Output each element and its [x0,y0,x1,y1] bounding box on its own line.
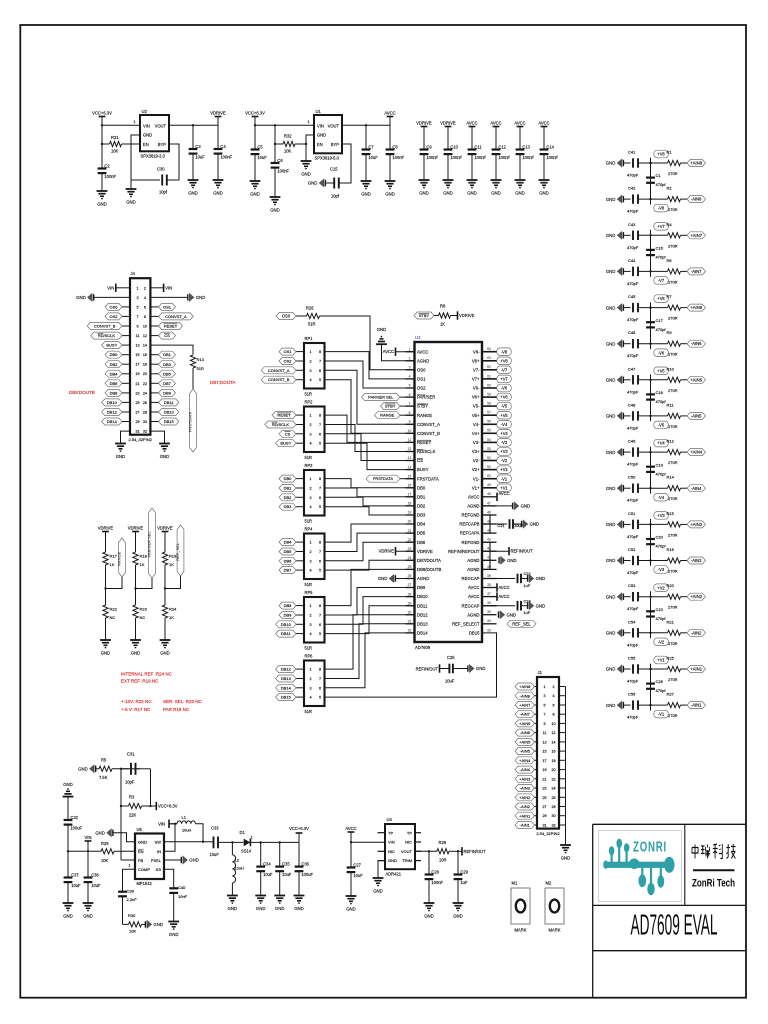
wire [623,234,630,236]
svg-text:VCC+6.3V: VCC+6.3V [245,110,265,115]
svg-text:R12: R12 [667,439,675,444]
pin 51 V2+ [482,469,497,471]
svg-text:R23: R23 [140,607,148,612]
svg-text:C11: C11 [474,144,482,149]
svg-text:32: 32 [408,629,412,633]
pin 6 PAR/SER [406,396,415,398]
svg-text:C3: C3 [195,144,201,149]
power flag AVCC (pin1) [396,351,415,353]
svg-text:SPX3819-3.3: SPX3819-3.3 [141,154,166,159]
wire [623,307,630,309]
pin 18 DB2 [406,505,415,507]
net flag DB11 (J4) [150,401,158,403]
net flag BUSY (RP2 input) [296,442,304,444]
svg-text:1: 1 [309,604,311,608]
svg-text:51R: 51R [308,322,316,327]
wire [623,523,630,525]
svg-text:C18: C18 [656,390,664,395]
svg-text:8: 8 [319,668,321,672]
ground [515,179,526,181]
svg-text:1: 1 [134,120,136,124]
capacitor C1 470pF (differential) [650,163,652,199]
svg-text:GND: GND [83,914,93,919]
svg-text:8: 8 [552,713,554,717]
resistor R20 270R [668,594,681,599]
wire [681,307,688,309]
capacitor C9 100nF [420,148,429,150]
svg-text:-AIN1: -AIN1 [520,823,531,828]
node flag -V5 [650,416,652,421]
svg-text:-V7: -V7 [501,367,508,372]
svg-text:V5+: V5+ [472,413,480,418]
wire [559,704,566,706]
svg-text:VDRIVE: VDRIVE [440,120,456,125]
svg-text:DB4: DB4 [417,522,426,527]
svg-text:GND: GND [317,133,326,138]
svg-text:5: 5 [319,569,321,573]
node flag +V2 [650,591,652,596]
power flag REFIN/OUT (pin42) [490,550,509,552]
svg-text:RANGE: RANGE [117,551,122,566]
wire [681,379,688,381]
node flag +V1 [497,484,512,492]
net flag DB1 (RP3 input) [296,487,304,489]
pin 24 DB7/DOUTA [406,559,415,561]
svg-text:GND: GND [346,907,356,912]
svg-text:50: 50 [487,474,491,478]
svg-text:25: 25 [542,796,546,800]
pin 34 REF_SELECT [482,623,497,625]
svg-text:REF_SEL: REF_SEL [175,542,180,561]
svg-text:15: 15 [408,474,412,478]
net flag OS1 (RP1 input) [296,351,304,353]
node flag +V6 [650,302,652,307]
pin 35 AGND [482,614,497,616]
resistor R24 1K [164,589,166,606]
net flag RANGE [375,412,401,419]
ground [419,179,430,181]
capacitor C39 2.2nF [118,891,127,893]
svg-text:+AIN1: +AIN1 [690,667,702,672]
svg-text:+AIN4: +AIN4 [690,450,702,455]
pin 48 AVCC [482,496,497,498]
capacitor C10 100nF [444,148,453,150]
svg-text:V3-: V3- [473,440,480,445]
svg-text:VDRIVE: VDRIVE [417,549,433,554]
svg-text:VIN: VIN [388,840,395,845]
resistor R4 270R [668,233,681,238]
svg-text:L2: L2 [235,858,240,863]
svg-text:C49: C49 [628,439,636,444]
wire [623,704,630,706]
svg-text:C35: C35 [282,861,290,866]
ground flag [513,523,522,525]
capacitor C6 100nF [271,162,280,164]
svg-text:-AIN3: -AIN3 [691,558,702,563]
ground [213,179,224,181]
svg-text:R20: R20 [667,583,675,588]
svg-text:AD7609: AD7609 [415,645,431,650]
svg-text:DB9: DB9 [417,585,426,590]
svg-text:C36: C36 [301,861,309,866]
ground flag (FSEL) [164,859,182,861]
node flag +V7 [650,230,652,235]
resistor R10 270R [668,377,681,382]
svg-text:4: 4 [309,569,311,573]
svg-text:VDRIVE: VDRIVE [210,110,226,115]
svg-text:21: 21 [135,382,139,386]
power flag AVCC [493,126,500,128]
svg-text:DB10: DB10 [417,594,428,599]
inductor L1 10uH [177,821,195,824]
svg-text:14: 14 [143,344,147,348]
capacitor C11 100nF [468,148,477,150]
svg-text:GND: GND [378,576,388,581]
wire [623,560,630,562]
svg-text:C28: C28 [431,869,439,874]
svg-text:100nF: 100nF [474,155,486,160]
resistor R14 270R [668,486,681,491]
svg-text:25: 25 [135,401,139,405]
svg-text:R26: R26 [306,306,314,311]
node flag +V2 [497,466,512,474]
svg-text:AGND: AGND [467,558,479,563]
svg-text:PAR R18 NC: PAR R18 NC [163,707,190,712]
ground [227,895,238,897]
svg-text:6: 6 [319,559,321,563]
svg-text:GND: GND [419,191,429,196]
svg-text:+V4: +V4 [500,431,508,436]
svg-text:+AIN4: +AIN4 [519,758,531,763]
svg-text:26: 26 [408,574,412,578]
svg-text:22: 22 [408,538,412,542]
svg-text:C6: C6 [277,158,283,163]
svg-text:R3: R3 [129,795,135,800]
svg-text:51R: 51R [305,582,313,587]
svg-text:36: 36 [487,601,491,605]
capacitor C19 470pF (differential) [650,452,652,488]
svg-text:GND: GND [143,133,152,138]
svg-text:RP3: RP3 [305,463,314,468]
pin 38 AVCC [482,587,497,589]
svg-text:VCC+6.3V: VCC+6.3V [92,110,112,115]
net flag DB2 (J4) [122,363,130,365]
capacitor C22 1uF [482,578,515,580]
svg-text:51R: 51R [305,519,313,524]
svg-text:TP: TP [407,830,412,835]
wire RP2.5 to U3 pin 14 [325,443,415,469]
net flag DB7 (J4) [150,382,158,384]
svg-text:C10: C10 [450,144,458,149]
svg-text:270R: 270R [668,605,678,610]
wire RP5.8 to U3 pin 25 [325,569,415,605]
wire [681,198,688,200]
net flag +AIN4 (J1) [535,759,538,761]
svg-text:DB12: DB12 [107,410,118,415]
svg-text:470pf: 470pf [656,255,667,260]
regulator U1 SPX3819-5.0 [314,115,342,153]
capacitor C17 470pF (differential) [650,308,652,344]
svg-text:1K: 1K [169,615,174,620]
node flag -V1 [650,705,652,710]
svg-text:28: 28 [551,805,555,809]
wire RP5.7 to U3 pin 27 [325,588,415,616]
pin 49 V1+ [482,487,497,489]
svg-text:100nF: 100nF [522,155,534,160]
ground [188,179,199,181]
svg-text:C26: C26 [656,679,664,684]
resistor R3 22K [129,803,142,808]
svg-text:DB1: DB1 [284,486,293,491]
svg-text:+AIN6: +AIN6 [519,721,531,726]
svg-text:AVCC: AVCC [538,120,549,125]
net flag RD/SCLK (J4) [122,335,130,337]
svg-text:C17: C17 [656,318,664,323]
net flag -AIN3 (J1) [535,787,538,789]
wire [449,850,462,852]
svg-text:24: 24 [551,787,555,791]
ground flag (AIN4- filter) [617,484,622,493]
svg-text:+AIN3: +AIN3 [519,776,531,781]
node flag -V6 [497,384,512,392]
svg-text:GND: GND [78,767,88,772]
svg-text:C25: C25 [447,655,455,660]
svg-text:+V1: +V1 [657,658,665,663]
svg-text:21: 21 [542,777,546,781]
ground [294,895,305,897]
svg-text:14: 14 [551,740,555,744]
svg-text:VDRIVE: VDRIVE [128,525,144,530]
svg-text:OS2: OS2 [283,359,292,364]
svg-text:U1: U1 [316,109,322,114]
svg-text:GND: GND [606,522,616,527]
svg-text:GND: GND [507,558,517,563]
svg-text:C34: C34 [263,861,271,866]
svg-text:DB5: DB5 [417,531,426,536]
svg-text:CONVST_A: CONVST_A [417,422,440,427]
power flag REFIN/OUT [461,847,463,855]
wire RP6.5 to DB15 bus [324,696,326,698]
svg-text:AVCC: AVCC [468,594,480,599]
pin 50 V1- [482,478,497,480]
power flag AVCC (U1 output) [387,116,394,118]
svg-text:19: 19 [135,372,139,376]
svg-text:AVCC: AVCC [468,494,480,499]
net flag +AIN8 [687,160,706,167]
svg-text:470pF: 470pF [627,281,639,286]
svg-text:DB1: DB1 [417,494,426,499]
svg-text:GND: GND [138,840,147,845]
svg-text:5: 5 [319,696,321,700]
svg-text:C29: C29 [460,869,468,874]
svg-text:-AIN6: -AIN6 [520,730,531,735]
svg-text:GND: GND [63,914,73,919]
wire [164,618,166,640]
svg-text:43: 43 [487,538,491,542]
node flag -V2 [497,457,512,465]
svg-text:DB3: DB3 [163,362,172,367]
svg-text:2.2nF: 2.2nF [127,897,138,902]
ground [424,902,435,904]
wire [105,618,107,640]
power flag AVCC (pin38) [496,583,498,591]
svg-text:2: 2 [309,487,311,491]
net flag -AIN8 (J1) [535,695,538,697]
pin 12 RD/SCLK [406,451,415,453]
svg-text:100uF: 100uF [70,825,82,830]
svg-text:STBY: STBY [417,404,428,409]
svg-text:R2: R2 [667,186,673,191]
wire [274,125,276,163]
svg-text:7: 7 [543,713,545,717]
net flag OS2 (J4) [122,315,130,317]
svg-text:+V6: +V6 [500,395,508,400]
svg-text:GND: GND [196,295,206,300]
svg-text:10uF: 10uF [71,883,81,888]
svg-text:10pf: 10pf [331,194,340,199]
pin 29 DB11 [406,605,415,607]
svg-text:8: 8 [319,350,321,354]
svg-text:PAR/SER: PAR/SER [417,395,435,400]
svg-text:AGND: AGND [467,504,479,509]
wire RP1.8 to U3 pin 4 [325,352,415,379]
power flag AVCC (pin37) [496,592,498,600]
ground [130,639,141,641]
svg-text:1: 1 [309,668,311,672]
svg-text:53: 53 [487,447,491,451]
resistor R5 7.5K [96,768,99,770]
svg-text:20: 20 [551,768,555,772]
svg-text:C44: C44 [628,258,636,263]
svg-text:7: 7 [409,402,411,406]
node flag +V3 [497,448,512,456]
resistor R25 270R [668,666,681,671]
svg-text:470pF: 470pF [627,389,639,394]
svg-text:VIN: VIN [85,835,92,840]
wire [623,451,630,453]
net flag DB15 (J4) [150,421,158,423]
pin 63 V8+ [482,360,497,362]
svg-text:4: 4 [309,696,311,700]
ground flag (AIN8- filter) [617,195,622,204]
ground flag (pin35) [500,610,505,619]
svg-text:R25: R25 [667,656,675,661]
wire [105,565,107,589]
svg-text:GND: GND [294,906,304,911]
capacitor C45 470pF [632,303,634,312]
svg-text:22: 22 [143,382,147,386]
svg-text:7: 7 [319,360,321,364]
svg-text:VDRIVE: VDRIVE [379,549,395,554]
capacitor C36 100uF [298,842,300,866]
node flag -V4 [650,488,652,493]
wire [192,368,194,389]
svg-text:FSEL: FSEL [151,858,162,863]
ground [83,902,94,904]
ground flag [521,578,528,580]
capacitor C34 10uF [260,842,262,866]
svg-text:6: 6 [319,369,321,373]
svg-text:55: 55 [487,429,491,433]
power flag VCC+6.3V (U2 input) [99,116,106,118]
node flag +V8 [650,158,652,163]
svg-text:C30: C30 [157,167,165,172]
svg-text:+AIN8: +AIN8 [519,684,531,689]
wire [681,596,688,598]
svg-text:OS1: OS1 [283,349,292,354]
pin 44 REFCAPA [482,532,497,534]
svg-text:C46: C46 [628,330,636,335]
wire [135,618,137,640]
svg-text:4: 4 [309,632,311,636]
ground flag (AIN5- filter) [617,411,622,420]
svg-text:VDRIVE: VDRIVE [459,313,475,318]
svg-text:+V5: +V5 [657,368,665,373]
svg-text:GND: GND [606,667,616,672]
pin 32 DB14 [406,632,415,634]
svg-text:26: 26 [143,401,147,405]
net flag RESET (RP2 input) [296,414,304,416]
svg-text:MARK: MARK [548,928,560,933]
ground [168,921,179,923]
wire IN riser [164,824,175,852]
net flag DB5 (RP4 input) [296,551,304,553]
svg-text:31: 31 [542,824,546,828]
ground [270,196,281,198]
svg-text:18: 18 [408,502,412,506]
wire SW [164,841,213,843]
svg-text:GND: GND [491,191,501,196]
wire [681,270,688,272]
pin 7 STBY [406,405,415,407]
svg-text:30: 30 [143,420,147,424]
wire [623,668,630,670]
svg-text:+AIN7: +AIN7 [690,233,702,238]
ground [63,902,74,904]
svg-text:470pf: 470pf [656,182,667,187]
svg-text:DB11: DB11 [417,603,428,608]
power flag VCC+6.3V [151,805,157,807]
net flag -AIN1 [687,702,706,709]
wire AGND bracket [489,542,491,569]
pin 59 V6+ [482,396,497,398]
pin 13 CS [406,460,415,462]
svg-text:+V2: +V2 [500,467,508,472]
node flag RANGE (vertical) [106,577,123,589]
net flag DB10 (J4) [122,401,130,403]
resistor R29 10K [101,849,114,854]
node flag REF_SEL (vertical) [165,576,181,589]
svg-text:GND: GND [606,269,616,274]
svg-text:3: 3 [136,296,138,300]
svg-text:GND: GND [606,631,616,636]
svg-text:C50: C50 [628,475,636,480]
capacitor C13 100nF [516,148,525,150]
svg-text:DB1: DB1 [163,352,172,357]
svg-text:SER. SEL: R23 NC: SER. SEL: R23 NC [163,699,203,704]
svg-text:GND: GND [301,172,311,177]
svg-text:FRSTDATA: FRSTDATA [417,476,439,481]
svg-text:C51: C51 [628,511,636,516]
svg-text:GND: GND [377,327,387,332]
node flag +V7 [497,375,512,383]
svg-text:GND: GND [189,858,199,863]
svg-text:AVCC: AVCC [499,585,510,590]
svg-text:10uF: 10uF [91,883,101,888]
svg-text:8: 8 [409,411,411,415]
svg-text:10: 10 [143,325,147,329]
svg-text:AVCC: AVCC [514,120,525,125]
